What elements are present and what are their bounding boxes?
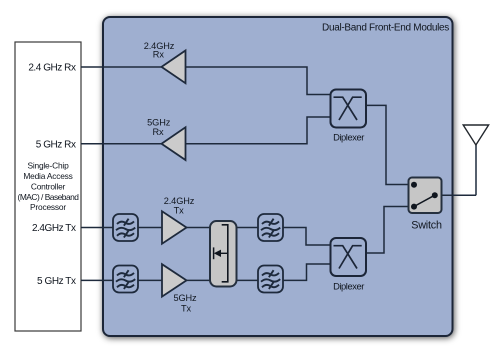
wire 5GHz Rx from diplexer to amp [186,117,331,144]
svg-text:2.4 GHz Rx: 2.4 GHz Rx [28,62,76,73]
wire diplexer2 to switch [366,207,409,254]
wire diplexer1 to switch [366,105,409,184]
svg-text:Single-Chip: Single-Chip [27,161,69,171]
wire 5GHz Tx coupler to filter [237,279,259,281]
wire antenna feed [475,145,477,196]
amplifier 5GHz Rx label [147,118,171,138]
baseband processor label [18,161,80,213]
switch [409,178,442,214]
svg-text:Diplexer: Diplexer [333,280,364,291]
diplexer 1 label [333,131,364,142]
switch label [411,220,442,232]
wire 2.4GHz Tx filter to amp [138,227,162,229]
svg-text:Rx: Rx [153,50,165,60]
filter 2.4GHz Tx input [113,214,138,241]
panel title label [322,23,449,34]
svg-text:5GHz: 5GHz [173,293,197,303]
svg-text:Tx: Tx [181,304,192,314]
filter 5GHz Tx input [113,266,138,293]
wire 5GHz Tx filter to diplexer [283,264,331,280]
filter 5GHz Tx output [258,266,283,293]
diplexer 2 label [333,280,364,291]
svg-text:Dual-Band Front-End Modules: Dual-Band Front-End Modules [322,23,449,34]
svg-text:Switch: Switch [411,220,442,232]
amplifier 2.4GHz Tx label [164,196,195,216]
amplifier 5GHz Tx [162,264,187,296]
diplexer 1 [331,90,367,128]
wire 5GHz Tx baseband to filter [81,279,113,281]
svg-text:Rx: Rx [152,127,164,137]
svg-text:Controller: Controller [31,181,66,191]
svg-text:Tx: Tx [174,206,185,216]
amplifier 5GHz Rx [162,127,186,160]
wire 2.4GHz Rx from amp to baseband [81,66,162,68]
amplifier 2.4GHz Rx label [144,41,175,60]
wire 2.4GHz Tx coupler to filter [237,227,259,229]
wire 2.4GHz Tx filter to diplexer [283,228,331,246]
antenna [463,125,488,145]
port label 5 GHz Tx [37,276,76,287]
port label 2.4GHz Tx [32,223,76,234]
port label 5 GHz Rx [36,139,76,150]
svg-text:5 GHz Rx: 5 GHz Rx [36,139,76,150]
front-end module panel [103,17,453,336]
wire 2.4GHz Tx amp to coupler [187,227,211,229]
wire 5GHz Rx from amp to baseband [81,143,162,145]
svg-text:(MAC) / Baseband: (MAC) / Baseband [18,192,80,202]
diplexer 2 [331,238,367,276]
wire 2.4GHz Tx baseband to filter [81,227,113,229]
svg-text:Media Access: Media Access [23,171,72,181]
amplifier 2.4GHz Tx [162,211,187,243]
baseband processor box [15,42,81,331]
svg-text:2.4GHz: 2.4GHz [164,196,195,206]
wire 5GHz Tx amp to coupler [187,279,211,281]
wire 5GHz Tx filter to amp [138,279,162,281]
wire 2.4GHz Rx from diplexer to amp [186,67,331,95]
amplifier 5GHz Tx label [173,293,197,313]
svg-text:2.4GHz Tx: 2.4GHz Tx [32,223,76,234]
wire switch to antenna [435,194,476,196]
svg-text:Diplexer: Diplexer [333,131,364,142]
svg-text:5 GHz Tx: 5 GHz Tx [37,276,76,287]
svg-text:5GHz: 5GHz [147,118,171,128]
port label 2.4 GHz Rx [28,62,76,73]
filter 2.4GHz Tx output [258,214,283,241]
coupler detector [210,221,237,287]
svg-text:Processor: Processor [30,202,66,212]
amplifier 2.4GHz Rx [162,51,186,84]
